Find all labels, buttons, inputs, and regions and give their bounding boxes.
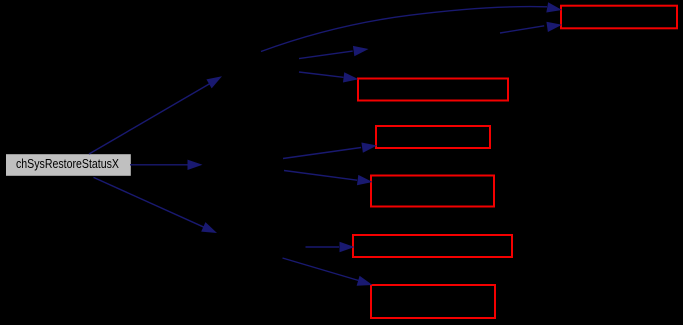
node N3 (red box) [376,126,490,148]
node chSysRestoreStatusX (main node, grey filled) [6,154,131,176]
arrowhead D->N1 [546,20,562,32]
svg-text:chSysRestoreStatusX: chSysRestoreStatusX [16,156,119,171]
arrowhead main->A [206,72,224,89]
edge main->C [94,177,205,227]
arrowhead main->B [188,160,203,170]
arrowhead B->N4 [357,175,373,187]
arrowhead C->N6 [357,276,374,290]
edge B->N3 [283,148,361,159]
arrowhead B->N3 [361,140,377,152]
arrowhead A->N2 [343,72,359,84]
edge main->B [130,164,190,166]
node N5 (red box, wide) [353,235,512,257]
edge A->D [299,51,353,59]
arrowhead main->C [201,222,219,238]
edge D->N1 [500,26,544,33]
node N2 (red box) [358,79,508,101]
node N6 (red box, two-line, bottom) [371,285,495,318]
edge main->A [89,84,210,155]
edge A->N2 [299,72,343,77]
edge A->N1 (long arc) [261,7,547,52]
node N1 (red box, top right) [561,6,677,29]
edge C->N6 [283,258,359,281]
arrowhead A->N1 [546,2,563,15]
arrowhead A->D [353,44,369,56]
edge C->N5 [306,246,340,248]
node N4 (red box, two-line) [371,176,494,207]
arrowhead C->N5 [340,242,355,252]
edge B->N4 [284,171,357,181]
